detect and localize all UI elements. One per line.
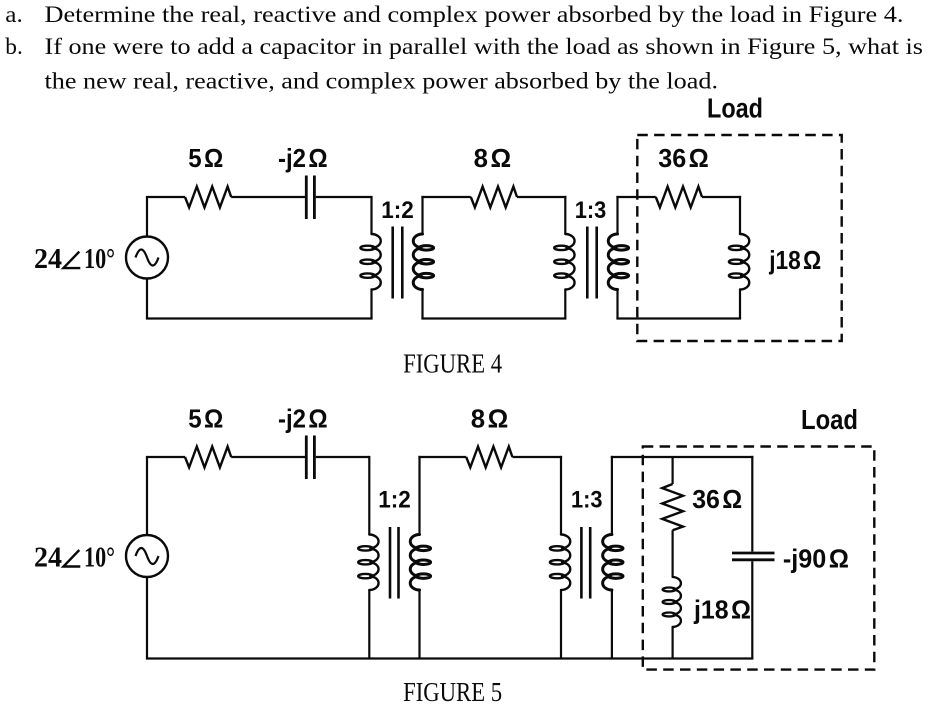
load boundary dashed box (Fig4) <box>637 135 841 341</box>
wire loop1 right lower (Fig4) <box>370 290 372 319</box>
svg-text:Load: Load <box>707 92 763 123</box>
wire loop3 left upper (Fig4) <box>616 196 618 234</box>
svg-text:24: 24 <box>34 543 62 574</box>
wire loop2 top right (Fig4) <box>517 196 566 198</box>
svg-text:36Ω: 36Ω <box>692 484 742 514</box>
svg-text:-j90Ω: -j90Ω <box>783 544 849 574</box>
source Vs1 24∠10° (Figure 4) <box>126 237 168 279</box>
svg-text:Determine the real, reactive a: Determine the real, reactive and complex… <box>45 2 904 28</box>
wire T1 primary to bottom rail (Fig5) <box>368 590 370 659</box>
wire loop2 right lower (Fig4) <box>564 290 566 319</box>
svg-text:8Ω: 8Ω <box>471 404 509 434</box>
wire capacitor to corner (Fig4) <box>316 196 372 198</box>
resistor 8Ω (Fig5) <box>466 447 512 468</box>
svg-text:the new real, reactive, and co: the new real, reactive, and complex powe… <box>45 68 719 94</box>
svg-text:-j2Ω: -j2Ω <box>278 143 328 173</box>
wire loop3 right upper (Fig4) <box>739 196 741 234</box>
wire j18Ω to bottom rail (Fig5) <box>671 627 673 659</box>
transformer T2 core (Fig5) <box>581 527 590 599</box>
label 24∠10° (Figure 4) <box>34 244 115 275</box>
svg-text:1:2: 1:2 <box>381 197 414 224</box>
transformer T1 secondary winding (Fig4) <box>413 234 433 290</box>
svg-text:-j2Ω: -j2Ω <box>278 404 328 434</box>
wire capacitor to corner (Fig5) <box>316 456 370 458</box>
wire loop2 left upper (Fig4) <box>421 196 423 234</box>
svg-text:36Ω: 36Ω <box>658 143 709 173</box>
resistor 8Ω (Fig4) <box>471 187 517 208</box>
svg-text:10°: 10° <box>84 244 115 275</box>
wire loop1 right upper (Fig4) <box>370 196 372 234</box>
svg-text:1:3: 1:3 <box>575 197 607 224</box>
bottom rail (Fig5) <box>146 657 754 659</box>
resistor 36Ω vertical (Fig5) <box>662 484 683 530</box>
svg-text:1:3: 1:3 <box>571 487 603 514</box>
transformer T2 secondary winding (Fig5) <box>603 535 623 591</box>
problem text line b cont <box>45 68 719 94</box>
svg-text:10°: 10° <box>84 543 115 574</box>
wire T2 primary vertical (Fig5) <box>560 456 562 535</box>
wire resistor to capacitor (Fig5) <box>231 456 305 458</box>
source Vs2 24∠10° (Figure 5) <box>126 535 168 577</box>
transformer T2 secondary winding (Fig4) <box>608 234 628 290</box>
wire resistor to capacitor (Fig4) <box>231 196 305 198</box>
transformer T2 core (Fig4) <box>587 227 596 299</box>
transformer T2 primary winding (Fig5) <box>550 535 570 591</box>
wire loop3 bottom (Fig4) <box>616 317 741 319</box>
wire loop3 top left (Fig4) <box>616 196 655 198</box>
wire 36Ω to j18Ω (Fig5) <box>671 530 673 577</box>
wire loop2 left lower (Fig4) <box>421 290 423 319</box>
svg-text:j18Ω: j18Ω <box>693 595 751 625</box>
wire loop2 top left (Fig4) <box>421 196 470 198</box>
problem text line a <box>5 2 903 28</box>
capacitor -j2Ω (Fig5) <box>306 436 314 480</box>
svg-text:FIGURE 4: FIGURE 4 <box>403 349 502 379</box>
label 24∠10° (Figure 5) <box>34 543 115 574</box>
resistor 5Ω (Fig4) <box>185 187 231 208</box>
wire capacitor to bottom rail (Fig5) <box>751 561 753 658</box>
wire 36Ω branch upper (Fig5) <box>671 457 673 484</box>
wire top left to resistor (Fig4) <box>146 196 185 198</box>
wire loop1 left lower (Fig4) <box>146 279 148 319</box>
transformer T1 core (Fig5) <box>390 527 399 599</box>
svg-text:FIGURE 5: FIGURE 5 <box>403 677 502 707</box>
capacitor -j90Ω (Fig5) <box>732 553 775 560</box>
svg-text:j18Ω: j18Ω <box>768 245 821 275</box>
wire loop3 left lower (Fig4) <box>616 290 618 319</box>
wire loop3 right lower (Fig4) <box>739 290 741 319</box>
capacitor -j2Ω (Fig4) <box>306 176 314 220</box>
svg-text:8Ω: 8Ω <box>474 143 512 173</box>
transformer T1 primary winding (Fig4) <box>360 234 380 290</box>
wire loop2 top right (Fig5) <box>512 456 562 458</box>
wire top left to resistor (Fig5) <box>146 456 185 458</box>
wire capacitor branch upper (Fig5) <box>751 456 753 552</box>
svg-text:24: 24 <box>34 244 62 275</box>
wire loop2 top left (Fig5) <box>418 456 466 458</box>
wire T1 primary vertical (Fig5) <box>368 456 370 535</box>
wire loop1 left upper (Fig5) <box>146 457 148 535</box>
wire T1 secondary to bottom rail (Fig5) <box>418 590 420 659</box>
problem text line b <box>5 34 923 60</box>
wire loop1 left lower (Fig5) <box>146 577 148 659</box>
inductor j18Ω (Fig4) <box>729 234 749 290</box>
wire T2 secondary vertical upper (Fig5) <box>611 456 613 535</box>
wire loop2 bottom (Fig4) <box>421 317 566 319</box>
transformer T1 primary winding (Fig5) <box>358 535 378 591</box>
inductor j18Ω (Fig5) <box>663 577 681 627</box>
wire T2 secondary to bottom rail (Fig5) <box>611 590 613 659</box>
transformer T2 primary winding (Fig4) <box>554 234 574 290</box>
svg-text:a.: a. <box>5 2 23 28</box>
svg-text:1:2: 1:2 <box>378 487 411 514</box>
resistor 5Ω (Fig5) <box>185 447 231 468</box>
svg-text:5Ω: 5Ω <box>188 404 223 434</box>
resistor 36Ω (Fig4) <box>656 187 702 208</box>
wire load top (Fig5) <box>611 456 754 458</box>
transformer T1 secondary winding (Fig5) <box>410 535 430 591</box>
wire loop3 top right (Fig4) <box>702 196 741 198</box>
svg-text:If one were to add a capacitor: If one were to add a capacitor in parall… <box>45 34 923 60</box>
wire T1 secondary vertical upper (Fig5) <box>418 456 420 535</box>
svg-text:Load: Load <box>801 404 858 435</box>
wire loop1 left upper (Fig4) <box>146 197 148 237</box>
svg-text:5Ω: 5Ω <box>188 143 223 173</box>
wire T2 primary to bottom rail (Fig5) <box>560 590 562 659</box>
svg-text:b.: b. <box>5 34 23 60</box>
wire loop1 bottom (Fig4) <box>146 317 373 319</box>
transformer T1 core (Fig4) <box>393 227 403 299</box>
load boundary dashed box (Fig5) <box>643 447 875 670</box>
wire loop2 right upper (Fig4) <box>564 196 566 234</box>
